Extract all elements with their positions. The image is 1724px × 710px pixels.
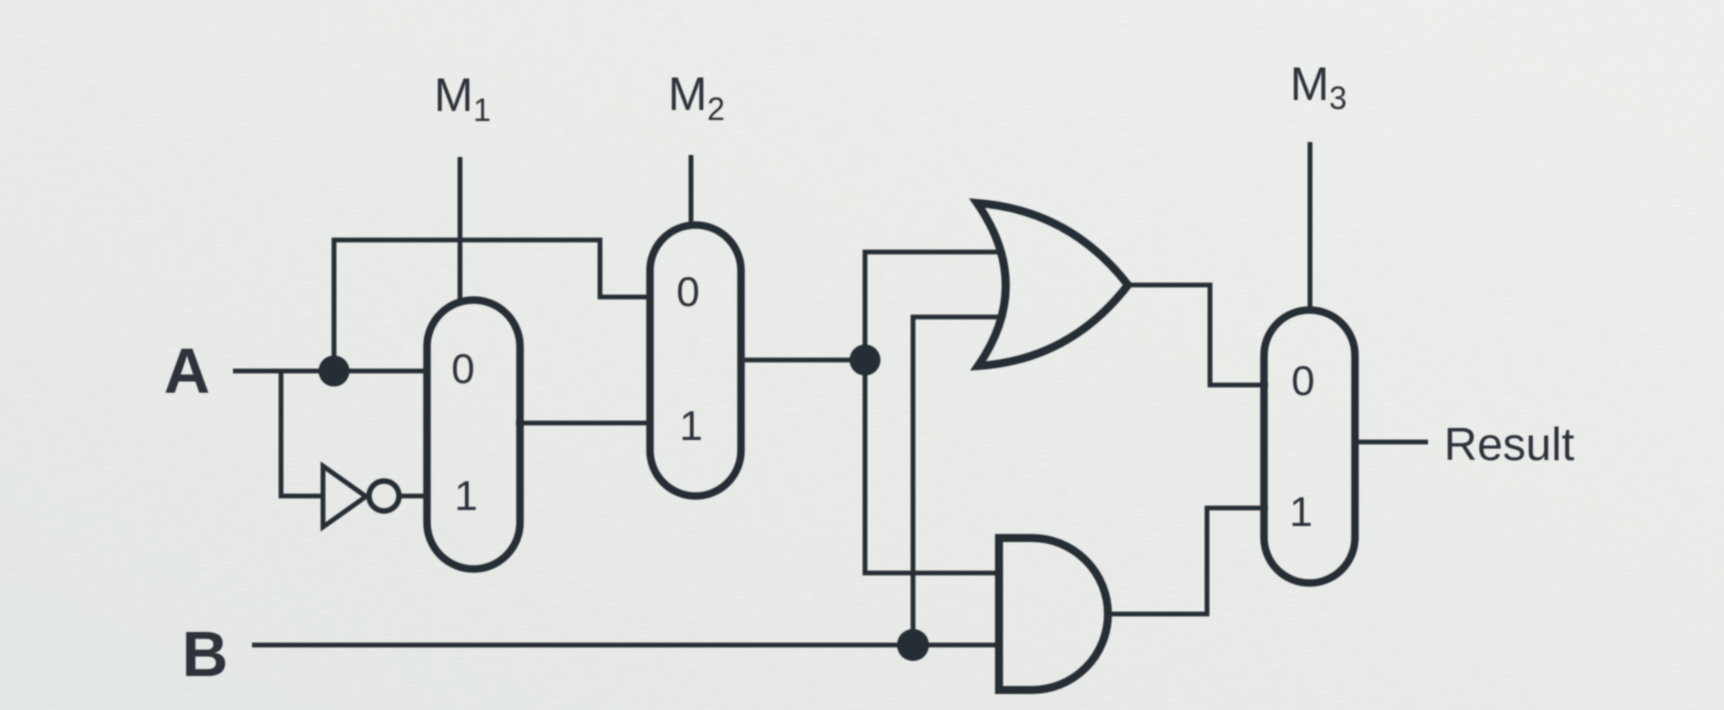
node B junction dot	[897, 629, 929, 661]
node A junction dot	[319, 356, 350, 387]
wire node C down to AND gate input 1	[865, 360, 1001, 573]
svg-text:Result: Result	[1444, 418, 1575, 470]
wire AND output to M3 pin 1	[1108, 508, 1268, 614]
svg-text:A: A	[164, 335, 210, 407]
wire OR output to M3 pin 0	[1128, 285, 1268, 385]
mux M1 body	[427, 300, 520, 569]
wire from node A up and over to M2 pin 0	[334, 240, 652, 371]
wire B lead into AND gate input 2	[252, 643, 1001, 648]
wire M1 output to M2 pin 1	[516, 421, 652, 426]
mux M2 body	[650, 225, 741, 496]
wire M3 output to Result	[1353, 440, 1428, 445]
wire M1 select line	[458, 157, 463, 300]
AND gate U3	[999, 538, 1108, 690]
wire branch from A down to inverter input	[281, 371, 323, 496]
wire M3 select line	[1308, 142, 1313, 313]
inverter U1 bubble	[369, 481, 399, 511]
wire M2 select line	[689, 155, 694, 227]
svg-text:1: 1	[679, 402, 702, 449]
wire node C up to OR gate input 1	[865, 252, 998, 360]
wire node B up to OR gate input 2	[913, 317, 998, 645]
svg-text:1: 1	[1289, 488, 1312, 535]
wire inverter output to M1 pin 1	[399, 494, 430, 499]
mux M3 body	[1264, 310, 1355, 583]
node C junction dot	[850, 345, 881, 376]
wire M2 output to node C	[742, 358, 865, 363]
OR gate U2	[977, 203, 1128, 366]
inverter U1 triangle	[323, 466, 366, 527]
svg-text:0: 0	[451, 345, 474, 392]
svg-text:0: 0	[1291, 357, 1314, 404]
svg-text:1: 1	[454, 472, 477, 519]
svg-text:0: 0	[676, 268, 699, 315]
svg-text:B: B	[182, 618, 228, 690]
wire A lead into M1 pin 0	[233, 369, 430, 374]
